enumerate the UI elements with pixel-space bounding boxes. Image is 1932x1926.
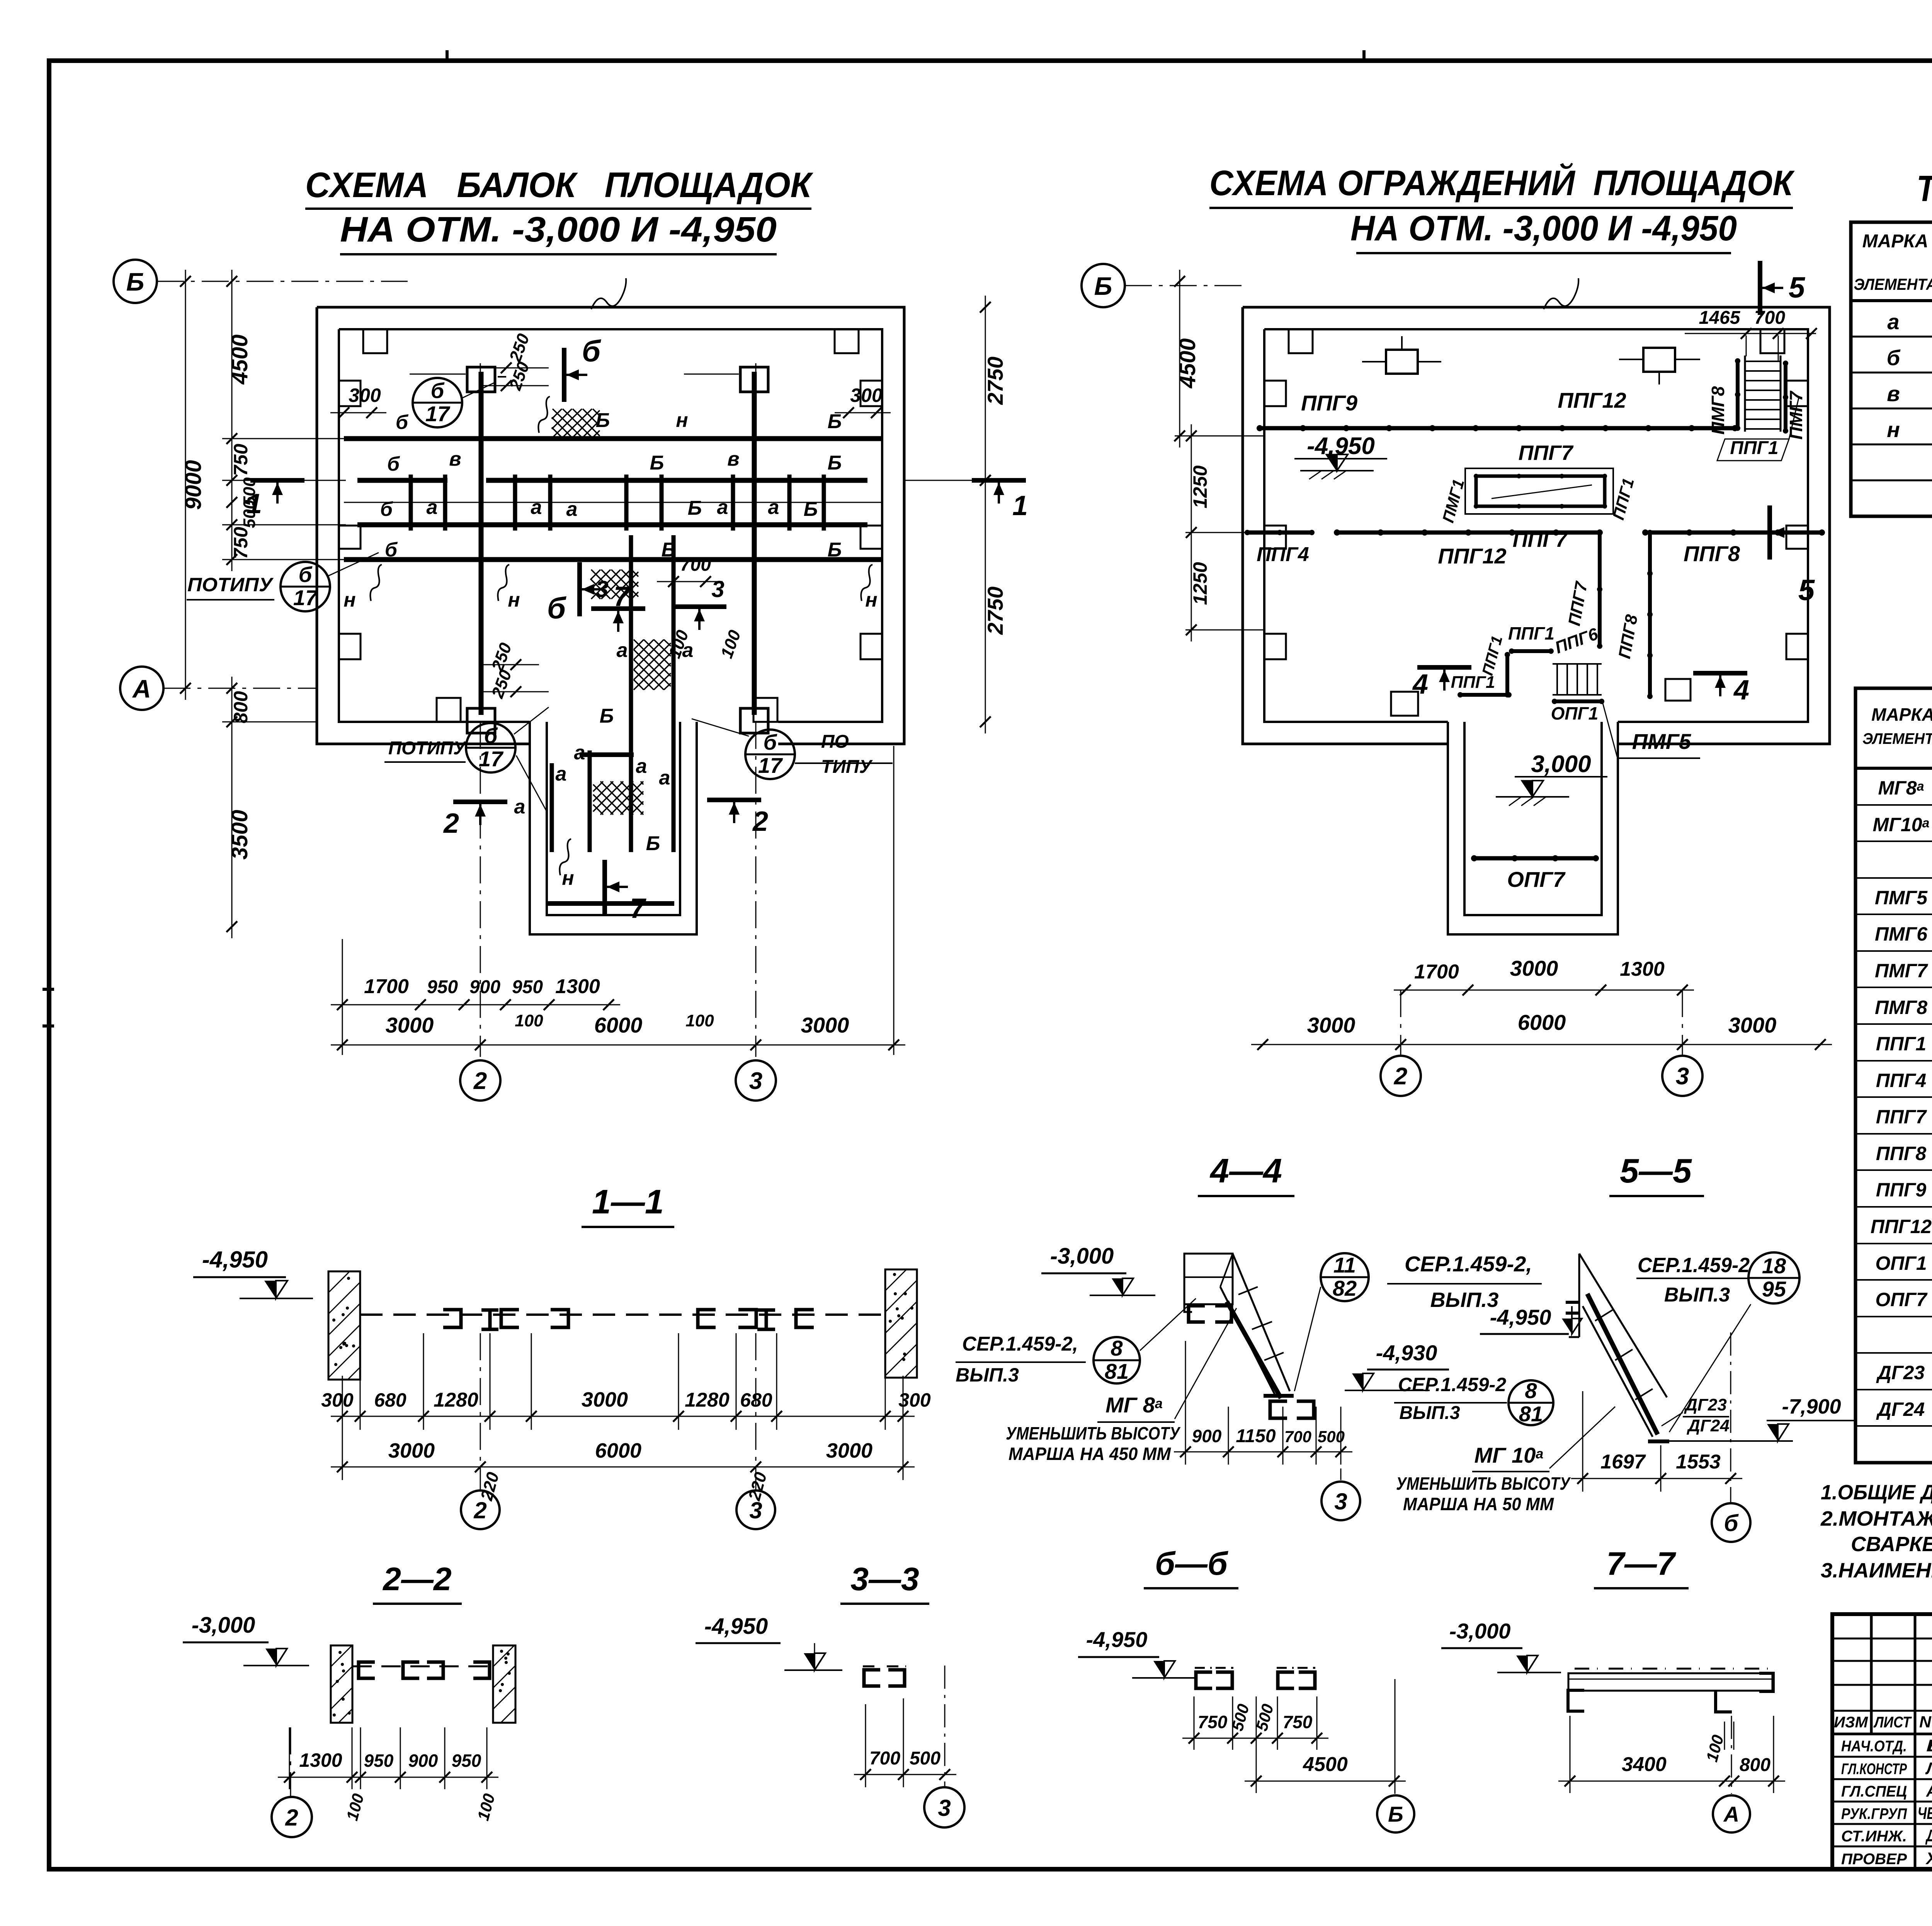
svg-text:н: н [865, 589, 877, 611]
svg-text:ДГ24: ДГ24 [1876, 1399, 1925, 1420]
svg-text:4—4: 4—4 [1209, 1152, 1282, 1190]
svg-text:ПО: ПО [821, 732, 849, 752]
left plan callout 6/17 stem right [745, 730, 795, 779]
svg-text:ДАВЫДОВА: ДАВЫДОВА [1925, 1826, 1932, 1845]
left plan section mark 3 right [672, 604, 726, 609]
svg-text:17: 17 [758, 753, 783, 778]
svg-text:750: 750 [1283, 1712, 1313, 1732]
svg-text:3: 3 [1334, 1489, 1347, 1514]
svg-text:ТИПУ: ТИПУ [821, 757, 873, 777]
svg-text:1250: 1250 [1189, 562, 1211, 605]
svg-text:950: 950 [364, 1751, 394, 1771]
svg-text:Б: Б [828, 452, 842, 474]
svg-text:ОПГ1: ОПГ1 [1875, 1252, 1927, 1274]
svg-text:1280: 1280 [434, 1389, 478, 1411]
middle plan small railing PPG1 mid [1512, 649, 1551, 653]
section 5-5 level -7,900 [1668, 1440, 1793, 1442]
section 1-1 channel symbols right [698, 1310, 716, 1327]
left plan stem beams [550, 763, 554, 852]
section 1-1 left wall [328, 1271, 360, 1380]
svg-text:ГЛ.СПЕЦ: ГЛ.СПЕЦ [1841, 1783, 1907, 1800]
svg-text:ППГ12: ППГ12 [1558, 388, 1626, 412]
table1 outer frame [1851, 222, 1932, 516]
svg-text:РУК.ГРУП: РУК.ГРУП [1841, 1805, 1907, 1822]
svg-text:4: 4 [1412, 669, 1428, 700]
svg-text:3: 3 [1676, 1063, 1689, 1090]
left plan section mark 6 top [562, 348, 566, 402]
svg-text:900: 900 [1192, 1426, 1222, 1446]
svg-text:-4,950: -4,950 [1086, 1627, 1148, 1652]
svg-text:ПОТИПУ: ПОТИПУ [388, 738, 467, 759]
middle plan vertical railing PPG8v [1648, 533, 1652, 696]
svg-text:НАЧ.ОТД.: НАЧ.ОТД. [1841, 1738, 1907, 1755]
svg-text:ЧЕТВЕРИКОВА: ЧЕТВЕРИКОВА [1918, 1804, 1932, 1823]
middle plan railing OPG1 [1554, 699, 1602, 703]
svg-text:а: а [636, 755, 647, 778]
svg-text:НА ОТМ. -3,000 И -4,950: НА ОТМ. -3,000 И -4,950 [1350, 209, 1737, 248]
middle plan stairs top right [1744, 356, 1746, 432]
svg-text:СЕР.1.459-2,: СЕР.1.459-2, [962, 1333, 1078, 1355]
section 5-5 stair [1579, 1254, 1667, 1397]
svg-text:б: б [387, 453, 400, 475]
svg-text:б: б [1724, 1510, 1739, 1536]
svg-text:а: а [574, 742, 585, 764]
section 6-6 dim 4500 [1256, 1750, 1257, 1793]
svg-text:а: а [514, 796, 526, 818]
svg-text:н: н [562, 867, 574, 890]
svg-text:81: 81 [1105, 1359, 1129, 1383]
left plan n squiggle marks [538, 396, 550, 433]
svg-text:Б: Б [596, 409, 610, 432]
middle plan small stair bottom [1553, 663, 1602, 665]
svg-text:МГ10а: МГ10а [1873, 814, 1930, 835]
section 4-4 landing box [1184, 1254, 1233, 1304]
section 1-1 extension lines [423, 1333, 424, 1430]
title block signature rows [1832, 1756, 1932, 1758]
svg-text:2.МОНТАЖ ВЕСТИ НА БОЛТАХ Н: 2.МОНТАЖ ВЕСТИ НА БОЛТАХ НОРМАЛЬНОЙ ТОЧН… [1820, 1506, 1932, 1530]
title block left grid columns [1870, 1614, 1873, 1734]
svg-text:-7,900: -7,900 [1782, 1395, 1841, 1418]
middle plan wall outline outer [1243, 307, 1830, 744]
svg-text:950: 950 [452, 1751, 481, 1771]
svg-text:НА ОТМ. -3,000 И -4,950: НА ОТМ. -3,000 И -4,950 [340, 210, 777, 249]
svg-text:УМЕНЬШИТЬ ВЫСОТУ: УМЕНЬШИТЬ ВЫСОТУ [1006, 1423, 1181, 1443]
section 6-6 extension lines [1194, 1696, 1195, 1750]
svg-text:17: 17 [425, 402, 451, 426]
svg-text:МАРКА: МАРКА [1862, 231, 1929, 252]
left plan axis bubble 2 [460, 1060, 500, 1101]
svg-text:3000: 3000 [801, 1013, 849, 1037]
svg-text:500: 500 [910, 1748, 940, 1769]
left plan section mark 1 left [250, 478, 304, 483]
title block header row [1832, 1733, 1932, 1735]
svg-text:750: 750 [230, 444, 252, 476]
svg-text:4: 4 [1733, 675, 1749, 706]
left plan axis vertical 2 [480, 363, 481, 1057]
svg-text:н: н [1887, 417, 1900, 442]
svg-text:ЭЛЕМЕНТА: ЭЛЕМЕНТА [1854, 275, 1932, 293]
svg-text:5—5: 5—5 [1620, 1152, 1692, 1190]
section 3-3 dims [854, 1774, 956, 1775]
svg-text:2: 2 [473, 1068, 487, 1094]
svg-text:ПОТИПУ: ПОТИПУ [187, 574, 274, 595]
svg-text:ППГ1: ППГ1 [1730, 438, 1778, 458]
svg-text:300: 300 [898, 1389, 931, 1411]
section 2-2 axis bubble [290, 1727, 291, 1796]
left plan callout 6/17 top [413, 378, 462, 427]
svg-text:Б: Б [650, 452, 664, 474]
left plan wall outline outer [317, 307, 904, 744]
svg-text:5: 5 [1789, 271, 1806, 304]
svg-text:2: 2 [443, 808, 459, 839]
svg-text:2—2: 2—2 [382, 1561, 451, 1597]
table1 row lines [1851, 336, 1932, 338]
section 7-7 extension lines [1570, 1716, 1571, 1793]
svg-text:б: б [547, 591, 566, 625]
svg-text:н: н [508, 589, 520, 611]
svg-text:1700: 1700 [1414, 961, 1459, 983]
table2 rows [1855, 804, 1932, 806]
svg-text:а: а [531, 496, 542, 519]
svg-text:МАРКА: МАРКА [1871, 704, 1932, 725]
svg-text:3000: 3000 [386, 1013, 434, 1037]
middle plan wall squares [1386, 350, 1418, 374]
middle plan railing row2 PPG12 [1337, 531, 1600, 535]
svg-text:300: 300 [321, 1389, 354, 1411]
svg-text:ППГ7: ППГ7 [1519, 441, 1574, 464]
section 1-1 platform dashed line [360, 1313, 885, 1316]
left plan axis bubble 3 [736, 1060, 776, 1101]
svg-text:ХОХЛОВА: ХОХЛОВА [1925, 1849, 1932, 1868]
left plan beam row 2 [357, 478, 447, 483]
section 2-2 dashed line and channels [352, 1666, 493, 1667]
svg-text:3.НАИМЕНЬШЕЕ УСИЛИЕ ДЛЯ ПРИ: 3.НАИМЕНЬШЕЕ УСИЛИЕ ДЛЯ ПРИКРЕПЛЕНИЯ 5ТС… [1821, 1559, 1932, 1582]
svg-text:б: б [484, 723, 498, 748]
svg-text:а: а [1887, 310, 1899, 334]
svg-text:NОДОКУМ.: NОДОКУМ. [1919, 1713, 1932, 1731]
svg-text:ДГ23: ДГ23 [1684, 1395, 1727, 1414]
svg-text:-3,000: -3,000 [1449, 1619, 1511, 1643]
middle plan bottom dim fine [1394, 990, 1694, 991]
svg-text:а: а [566, 498, 578, 521]
left plan section mark 7 bottom [602, 860, 607, 914]
svg-text:1300: 1300 [299, 1749, 342, 1771]
svg-text:ППГ1: ППГ1 [1451, 673, 1495, 692]
svg-text:3: 3 [749, 1497, 762, 1523]
svg-text:1280: 1280 [685, 1389, 730, 1411]
section 4-4 stair diagonal [1233, 1254, 1290, 1391]
svg-text:а: а [427, 496, 438, 519]
svg-text:950: 950 [427, 977, 458, 997]
section 5-5 dims [1582, 1391, 1583, 1492]
svg-text:800: 800 [230, 691, 252, 723]
middle plan dim extension lines [1175, 436, 1264, 437]
section 1-1 dim row2 [331, 1467, 915, 1468]
svg-text:ППГ7: ППГ7 [1876, 1106, 1927, 1128]
svg-text:ПМГ8: ПМГ8 [1875, 997, 1927, 1018]
title block outer frame [1832, 1614, 1932, 1869]
left plan section mark 2 left [453, 800, 507, 804]
section 3-3 extension lines [865, 1704, 866, 1787]
svg-text:-3,000: -3,000 [1050, 1244, 1114, 1269]
svg-text:6000: 6000 [595, 1439, 641, 1462]
section 1-1 axis bubbles [480, 1333, 481, 1490]
svg-text:1150: 1150 [1236, 1426, 1276, 1446]
svg-text:АНТОНОВ: АНТОНОВ [1926, 1781, 1932, 1800]
svg-text:ПМГ8: ПМГ8 [1708, 386, 1728, 435]
svg-text:4500: 4500 [227, 334, 252, 385]
section 3-3 channels [864, 1670, 880, 1686]
table2 outer frame [1855, 688, 1932, 1463]
svg-text:2: 2 [752, 806, 768, 837]
left plan beam row 1 [344, 436, 883, 441]
svg-text:СЕР.1.459-2: СЕР.1.459-2 [1398, 1374, 1506, 1395]
svg-text:Б: Б [688, 497, 702, 519]
svg-text:ППГ8: ППГ8 [1876, 1143, 1927, 1164]
left plan axis vertical 3 [755, 363, 757, 1057]
svg-text:3500: 3500 [227, 810, 252, 859]
svg-text:8: 8 [1111, 1336, 1123, 1360]
svg-text:СВАРКЕ.: СВАРКЕ. [1851, 1533, 1932, 1556]
svg-text:7: 7 [614, 581, 630, 612]
middle plan level -4,950 [1326, 454, 1337, 471]
svg-text:н: н [676, 409, 688, 432]
svg-text:б: б [431, 378, 445, 403]
section 7-7 dims [1558, 1781, 1785, 1782]
svg-text:17: 17 [293, 585, 318, 610]
section 1-1 dim row1 [331, 1416, 915, 1417]
left plan bottom dim chain fine [331, 1004, 620, 1006]
middle plan stem walls [1448, 722, 1618, 934]
svg-text:МАРША НА 50 ММ: МАРША НА 50 ММ [1403, 1494, 1554, 1514]
svg-text:4500: 4500 [1175, 338, 1200, 388]
middle plan pit railing rect [1465, 468, 1613, 514]
svg-text:2750: 2750 [983, 357, 1007, 405]
svg-text:1553: 1553 [1676, 1451, 1721, 1473]
svg-text:ВЫП.3: ВЫП.3 [1664, 1284, 1730, 1306]
svg-text:3000: 3000 [388, 1439, 435, 1462]
section 4-4 dims [1185, 1341, 1186, 1465]
svg-text:ЕРЗИН: ЕРЗИН [1926, 1736, 1932, 1755]
left plan section mark 1 right [972, 478, 1026, 483]
middle plan section mark 4 left [1417, 665, 1471, 670]
svg-text:ППГ1: ППГ1 [1508, 623, 1554, 643]
svg-text:300: 300 [349, 385, 381, 406]
svg-text:7—7: 7—7 [1606, 1545, 1676, 1582]
svg-text:5: 5 [1798, 574, 1815, 607]
section 4-4 bottom channels [1264, 1394, 1294, 1398]
section 3-3 axis bubble [944, 1666, 946, 1786]
svg-text:ЭЛЕМЕНТА: ЭЛЕМЕНТА [1862, 730, 1932, 747]
section 7-7 platform beam [1568, 1673, 1772, 1691]
middle plan left dim chain [1179, 270, 1180, 447]
svg-text:2: 2 [473, 1497, 486, 1523]
left plan bottom dim chain main [331, 1045, 905, 1046]
svg-text:СХЕМА ОГРАЖДЕНИЙ ПЛОЩАДОК: СХЕМА ОГРАЖДЕНИЙ ПЛОЩАДОК [1209, 162, 1795, 203]
svg-text:б: б [396, 411, 409, 434]
svg-text:б: б [299, 562, 313, 587]
svg-text:-4,950: -4,950 [202, 1247, 268, 1273]
svg-text:ПМГ7: ПМГ7 [1786, 390, 1806, 440]
section 4-4 stair stringer thick [1227, 1302, 1281, 1398]
svg-text:СЕР.1.459-2,: СЕР.1.459-2, [1405, 1252, 1532, 1276]
middle plan axis bubble 2 [1381, 1056, 1421, 1096]
middle plan vertical railing PPG7 [1598, 533, 1602, 646]
svg-text:ГЛ.КОНСТР: ГЛ.КОНСТР [1841, 1761, 1907, 1778]
left plan extension lines to dims [222, 438, 346, 439]
svg-text:11: 11 [1333, 1253, 1356, 1277]
svg-text:1465: 1465 [1699, 308, 1741, 328]
svg-text:ППГ8: ППГ8 [1684, 541, 1740, 566]
svg-text:3000: 3000 [582, 1388, 628, 1411]
left plan top wall break squiggle [591, 278, 626, 309]
svg-text:а: а [659, 767, 670, 789]
svg-text:3000: 3000 [1307, 1013, 1355, 1037]
svg-text:1697: 1697 [1600, 1451, 1646, 1473]
left plan hatch patches [552, 409, 600, 437]
middle plan wall outline inner [1264, 329, 1808, 722]
svg-text:ПМГ7: ПМГ7 [1875, 960, 1928, 982]
svg-text:3: 3 [711, 576, 724, 602]
left plan 9000 dimension [185, 270, 186, 700]
svg-text:100: 100 [515, 1011, 543, 1030]
svg-text:6000: 6000 [1518, 1010, 1566, 1034]
svg-text:680: 680 [374, 1389, 406, 1411]
svg-text:МГ 10а: МГ 10а [1475, 1443, 1544, 1467]
svg-text:в: в [1887, 381, 1900, 406]
svg-text:ППГ4: ППГ4 [1876, 1070, 1926, 1091]
svg-text:Б: Б [662, 539, 676, 561]
middle plan railing PPG9-PPG12 [1260, 426, 1735, 430]
svg-text:в: в [449, 448, 461, 470]
svg-text:б: б [1887, 345, 1901, 370]
svg-text:СЕР.1.459-2: СЕР.1.459-2 [1638, 1254, 1750, 1277]
svg-text:ВЫП.3: ВЫП.3 [1430, 1288, 1499, 1312]
svg-text:ППГ1: ППГ1 [1876, 1033, 1926, 1055]
section 4-4 callout 11/82 [1321, 1253, 1369, 1301]
svg-text:Б: Б [1388, 1802, 1403, 1826]
svg-text:3—3: 3—3 [850, 1561, 919, 1597]
svg-text:б: б [582, 334, 601, 368]
section 5-5 axis bubble 6 [1730, 1332, 1731, 1502]
svg-text:ВЫП.3: ВЫП.3 [956, 1364, 1019, 1386]
left plan wall outline inner [339, 329, 882, 722]
svg-text:н: н [344, 589, 355, 611]
left plan axis circle B [114, 260, 157, 303]
svg-text:ПРОВЕР: ПРОВЕР [1841, 1851, 1907, 1868]
left plan long vertical pair near section 3 [629, 535, 633, 852]
svg-text:а: а [768, 496, 779, 519]
middle plan dim 1465 700 [1685, 333, 1816, 334]
svg-text:3,000: 3,000 [1531, 751, 1591, 778]
svg-text:1300: 1300 [1620, 958, 1665, 980]
section 2-2 dims [278, 1777, 498, 1778]
svg-text:-4,950: -4,950 [1307, 433, 1375, 459]
svg-text:750: 750 [1198, 1712, 1228, 1732]
section 2-2 extension lines [289, 1727, 290, 1789]
svg-text:ППГ9: ППГ9 [1301, 391, 1357, 415]
svg-text:СХЕМА БАЛОК ПЛОЩАДОК: СХЕМА БАЛОК ПЛОЩАДОК [305, 165, 813, 205]
middle plan bottom dim main [1251, 1044, 1832, 1045]
svg-text:18: 18 [1762, 1254, 1786, 1278]
middle plan railing row2 PPG8 [1645, 531, 1822, 535]
svg-text:Б: Б [600, 705, 614, 727]
svg-text:-3,000: -3,000 [192, 1613, 255, 1638]
svg-text:ОПГ1: ОПГ1 [1551, 703, 1599, 723]
svg-text:3: 3 [749, 1068, 762, 1094]
svg-text:2: 2 [285, 1805, 298, 1831]
svg-text:Б: Б [646, 832, 660, 855]
svg-text:700: 700 [680, 555, 711, 575]
svg-text:1: 1 [247, 488, 262, 519]
svg-text:8: 8 [1525, 1378, 1537, 1403]
svg-text:Б: Б [828, 539, 842, 561]
svg-text:Б: Б [804, 498, 818, 521]
svg-text:1: 1 [1012, 490, 1028, 521]
middle plan section mark 5 top [1758, 261, 1762, 315]
middle plan railing PPG1 lower-left [1460, 693, 1509, 697]
middle plan stair railing PMG7 [1784, 363, 1787, 431]
left plan left dimension chain [231, 270, 233, 571]
svg-text:ПМГ6: ПМГ6 [1875, 923, 1928, 945]
left plan section mark 3 left [591, 606, 645, 611]
svg-text:1—1: 1—1 [592, 1182, 664, 1221]
middle plan level 3,000 stem [1522, 781, 1532, 797]
svg-text:3000: 3000 [1510, 956, 1558, 980]
section 5-5 callout 18/95 [1748, 1252, 1799, 1303]
left plan beam row 3 [357, 522, 867, 527]
left plan beam row 4 [344, 557, 883, 562]
svg-text:800: 800 [1740, 1755, 1770, 1775]
left plan cross beams a [409, 475, 413, 531]
section 2-2 right wall [493, 1645, 515, 1723]
svg-text:500: 500 [1318, 1427, 1345, 1446]
svg-text:б: б [385, 539, 398, 561]
left plan dim 800 3500 [231, 677, 233, 938]
svg-text:-4,950: -4,950 [1490, 1305, 1551, 1329]
svg-text:ПМГ5: ПМГ5 [1632, 729, 1691, 754]
svg-text:ППГ9: ППГ9 [1876, 1179, 1927, 1201]
middle plan railing OPG7 [1474, 856, 1596, 861]
middle plan stair railing PMG8 [1736, 361, 1740, 428]
middle plan axis circle B [1082, 264, 1125, 307]
svg-text:750: 750 [230, 527, 252, 559]
svg-text:ДГ23: ДГ23 [1876, 1362, 1925, 1383]
svg-text:-4,930: -4,930 [1376, 1341, 1437, 1365]
svg-text:ЛАМАКИН: ЛАМАКИН [1925, 1759, 1932, 1778]
svg-text:1250: 1250 [1189, 465, 1211, 508]
svg-text:9000: 9000 [181, 460, 206, 510]
svg-text:УМЕНЬШИТЬ ВЫСОТУ: УМЕНЬШИТЬ ВЫСОТУ [1396, 1473, 1571, 1494]
svg-text:17: 17 [479, 747, 504, 771]
svg-text:б—б: б—б [1155, 1545, 1228, 1582]
svg-text:ППГ12: ППГ12 [1438, 544, 1506, 568]
svg-text:900: 900 [469, 977, 500, 997]
svg-text:а: а [556, 763, 567, 785]
left plan section mark 2 right [707, 798, 761, 802]
svg-text:ПМГ5: ПМГ5 [1875, 887, 1928, 909]
svg-text:2750: 2750 [983, 587, 1007, 635]
svg-text:в: в [727, 448, 739, 470]
svg-text:А: А [1723, 1802, 1739, 1826]
svg-text:а: а [617, 639, 628, 662]
svg-text:ДГ24: ДГ24 [1686, 1416, 1730, 1435]
left plan axis circle A [120, 667, 163, 710]
section 4-4 axis bubble 3 [1340, 1468, 1342, 1480]
title block left grid rows upper [1832, 1638, 1932, 1640]
svg-text:Б: Б [126, 267, 145, 296]
svg-text:МАРША НА 450 ММ: МАРША НА 450 ММ [1009, 1444, 1172, 1464]
